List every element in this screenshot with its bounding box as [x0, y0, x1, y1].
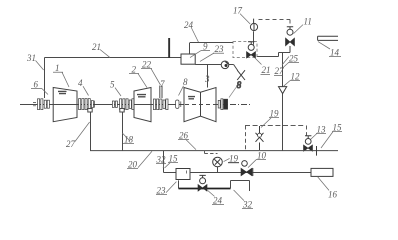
svg-text:11: 11	[304, 17, 312, 27]
underline 10	[256, 159, 266, 161]
svg-text:21: 21	[262, 65, 271, 75]
wire: centerline through M1	[54, 104, 77, 106]
underline 19b	[228, 162, 239, 164]
wire: line 24	[190, 42, 234, 44]
wire: steam inlet to M3	[207, 65, 209, 88]
leader 23	[200, 53, 214, 61]
underline 1	[53, 71, 63, 73]
box 16	[311, 168, 333, 176]
wire: main top boundary line (item 21)	[45, 57, 182, 59]
control valve (circle) item 23	[221, 61, 229, 69]
leader 19b	[224, 158, 230, 161]
leader 21c	[255, 58, 262, 65]
leader 1	[62, 72, 69, 87]
leader 24 top	[192, 28, 199, 42]
leader 13	[311, 133, 317, 139]
underline 13	[316, 133, 326, 135]
svg-text:7: 7	[160, 79, 165, 89]
svg-text:20: 20	[128, 160, 138, 170]
coupling C1	[79, 99, 95, 110]
leader 11	[294, 25, 304, 34]
leader 15b	[321, 132, 333, 148]
shaft centerline	[20, 104, 228, 106]
bar right of valve 13	[316, 146, 318, 156]
svg-text:15: 15	[333, 123, 343, 133]
leader 27c	[282, 57, 289, 66]
underline 25	[288, 62, 299, 64]
leader 14	[318, 42, 330, 49]
underline 21c	[261, 74, 271, 76]
svg-text:15: 15	[169, 154, 179, 164]
wire: drain line from C1 to bottom manifold	[90, 112, 92, 151]
valve 24	[198, 175, 207, 191]
valve 26 (dome valve in dashed box)	[247, 42, 256, 58]
leader 17	[240, 14, 250, 24]
svg-text:21: 21	[92, 42, 101, 52]
dashed drop left	[245, 126, 247, 151]
stub line item 21 pointer target / thick stub	[168, 38, 170, 58]
coupling C3	[153, 99, 168, 110]
leader 32b	[234, 190, 244, 201]
svg-text:12: 12	[291, 72, 301, 82]
coupling C4	[218, 99, 227, 110]
svg-text:16: 16	[328, 190, 338, 200]
svg-text:18: 18	[124, 135, 134, 145]
svg-text:19: 19	[229, 154, 239, 164]
wire: thick drain header	[179, 188, 231, 190]
underline 23b	[156, 194, 167, 196]
dashed drop to valve 13	[306, 126, 308, 139]
leader 19a	[261, 118, 271, 128]
leader 4	[83, 86, 89, 95]
pipe end item 14	[318, 36, 338, 40]
leader 22	[151, 69, 161, 85]
svg-text:3: 3	[204, 74, 210, 84]
wire: vertical into box 9	[189, 43, 191, 54]
underline 24b	[212, 204, 224, 206]
turbine M3 double flow	[184, 88, 216, 122]
leader 9	[190, 51, 201, 58]
gauge on outlet line (item 19)	[213, 157, 223, 167]
leader 2	[138, 74, 147, 88]
valve 11	[286, 27, 295, 53]
svg-text:6: 6	[34, 80, 39, 90]
leader 10	[248, 160, 256, 168]
leader 31	[36, 61, 44, 71]
svg-text:8: 8	[183, 77, 188, 87]
leader 8a	[179, 86, 184, 96]
leader 16	[318, 177, 329, 191]
svg-text:23: 23	[157, 186, 167, 196]
leader 5	[115, 88, 121, 96]
underline 32a	[156, 163, 166, 165]
wire: drop from manifold to pump box	[164, 151, 177, 173]
underline 6	[31, 88, 42, 90]
wire: main vertical steam line	[282, 53, 284, 151]
label text in M2	[137, 95, 146, 97]
leader 12	[284, 81, 290, 87]
svg-text:23: 23	[215, 44, 225, 54]
svg-text:13: 13	[317, 125, 327, 135]
svg-text:24: 24	[184, 20, 194, 30]
underline 12	[290, 80, 300, 82]
gauge item 17	[250, 19, 257, 31]
shaft centerline dashed stub	[230, 104, 250, 106]
svg-text:2: 2	[132, 65, 137, 75]
turbine M2	[134, 88, 151, 122]
pump box (item 23)	[176, 169, 190, 180]
bearing pedestal under C1	[88, 109, 92, 113]
bearing pedestal under C2	[120, 109, 124, 113]
svg-text:17: 17	[233, 6, 243, 16]
wire: drop from pump box to drain header	[178, 180, 180, 188]
underline 32b	[242, 207, 253, 209]
svg-text:8: 8	[237, 80, 242, 90]
underline 2	[129, 73, 139, 75]
underline 15b	[332, 131, 342, 133]
underline 15a	[168, 162, 178, 164]
leader 18	[122, 133, 130, 141]
svg-text:26: 26	[179, 131, 189, 141]
drain funnel item 12	[279, 87, 287, 94]
wire: pump outlet line to box 16	[190, 172, 311, 174]
wire: drain line from C2 to bottom manifold	[122, 112, 124, 151]
underline 23	[213, 52, 224, 54]
wire: centerline through M2	[135, 104, 151, 106]
underline 26	[178, 139, 189, 141]
coupling C2a	[112, 101, 117, 107]
svg-text:10: 10	[257, 151, 267, 161]
label text in M3	[188, 97, 195, 99]
valve 10 with actuator	[241, 161, 253, 176]
svg-text:31: 31	[26, 53, 36, 63]
svg-text:25: 25	[289, 54, 299, 64]
leader 21	[100, 50, 110, 58]
svg-text:32: 32	[156, 155, 167, 165]
svg-text:1: 1	[55, 63, 60, 73]
leader 15a	[165, 163, 171, 168]
svg-text:19: 19	[270, 109, 280, 119]
dashed stub to gauge	[205, 151, 218, 154]
svg-text:5: 5	[110, 80, 115, 90]
leader 20	[138, 151, 152, 167]
turbine M1	[53, 88, 77, 122]
leader 24b	[208, 190, 215, 196]
wire: from gauge down to valve 26	[253, 31, 255, 44]
leader 27	[75, 122, 90, 142]
leader 26	[186, 140, 196, 150]
leader 6	[42, 89, 48, 95]
underline 14	[329, 55, 341, 57]
coupling C0	[33, 99, 49, 110]
probe lines above C3 (item 22/7)	[160, 86, 162, 99]
dashed extraction line	[245, 125, 305, 127]
svg-text:24: 24	[213, 196, 223, 206]
coupling C5 small	[176, 100, 181, 108]
leader 23b	[166, 182, 176, 193]
underline 19a	[269, 117, 279, 119]
wire: bottom manifold	[90, 150, 338, 152]
wire: jog connecting valve 26 outlet	[257, 53, 290, 57]
wire: pipe bridge (item 32)	[231, 181, 250, 192]
svg-text:14: 14	[330, 48, 340, 58]
leader	[229, 88, 236, 98]
dashed enclosure around valve 26	[233, 42, 257, 58]
X-valve on bypass	[237, 70, 245, 80]
wire: box 9 outlet to valve	[195, 64, 221, 66]
wire: vertical line from top line down to shaft end	[44, 58, 46, 99]
leader 25	[283, 63, 289, 68]
underline 20	[127, 167, 138, 169]
wire: centerline through M3 (dashed)	[185, 104, 216, 106]
svg-text:27: 27	[66, 139, 76, 149]
underline 9	[201, 50, 210, 52]
svg-text:4: 4	[78, 78, 83, 88]
dashed control line to valve 11	[259, 20, 291, 27]
wire: gauge to line	[217, 167, 219, 173]
svg-text:22: 22	[142, 60, 152, 70]
underline 18	[123, 142, 134, 144]
svg-text:32: 32	[242, 200, 253, 210]
label text in M1	[58, 91, 67, 93]
valve 13	[304, 136, 313, 151]
underline 27c	[274, 75, 283, 77]
coupling C2	[120, 99, 134, 110]
box 9 (valve chest)	[181, 54, 195, 64]
X-valve item 19	[256, 126, 264, 150]
svg-text:27: 27	[275, 66, 285, 76]
underline 22	[141, 68, 152, 70]
leader 32a	[162, 164, 165, 168]
wire: stub right of circle valve	[229, 65, 238, 71]
svg-text:9: 9	[203, 42, 208, 52]
